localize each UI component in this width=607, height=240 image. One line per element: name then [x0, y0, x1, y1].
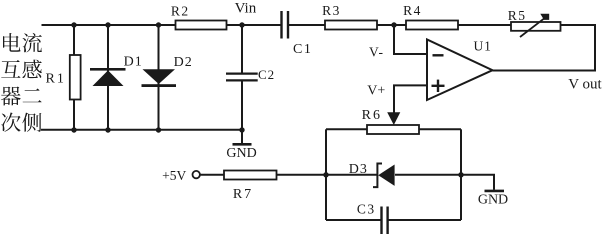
wire loop right vertical — [460, 129, 462, 220]
label chinese char 互 — [1, 60, 20, 78]
wire C2 branch vertical upper — [241, 25, 243, 74]
wire D2 branch vertical — [158, 25, 160, 130]
wire top bus right segment (C1 to feedback corner) — [289, 24, 596, 26]
svg-text:R5: R5 — [508, 8, 527, 23]
wire loop bottom left of C3 — [326, 219, 381, 221]
wire V+ branch to R6 wiper — [394, 85, 427, 116]
resistor R3 — [325, 21, 377, 30]
svg-text:GND: GND — [478, 193, 508, 208]
resistor R6 (potentiometer) — [367, 112, 419, 134]
svg-text:D2: D2 — [174, 55, 193, 70]
wire R6 row (loop top) — [326, 128, 461, 130]
svg-text:C2: C2 — [258, 67, 275, 82]
diode D1 — [90, 68, 126, 86]
svg-text:GND: GND — [226, 146, 256, 161]
wire top bus left segment — [42, 24, 282, 26]
wire R1 branch vertical — [73, 25, 75, 130]
wire loop left vertical — [325, 129, 327, 220]
svg-text:C1: C1 — [293, 42, 312, 57]
svg-text:R6: R6 — [362, 108, 382, 123]
label chinese char 流 — [22, 33, 41, 53]
+5V terminal circle — [193, 171, 200, 178]
label chinese char 侧 — [22, 113, 41, 132]
wire C2 branch vertical lower — [241, 81, 243, 130]
label chinese char 电 — [3, 33, 21, 52]
ground GND bar right — [485, 190, 505, 193]
label chinese char 感 — [22, 60, 41, 79]
resistor R4 — [406, 21, 458, 30]
label chinese char 器 — [1, 87, 21, 106]
wire feedback right vertical and op-amp output — [493, 24, 596, 71]
svg-text:V out: V out — [568, 76, 602, 92]
capacitor C3 — [382, 207, 388, 235]
svg-text:Vin: Vin — [235, 0, 257, 16]
wire D1 branch vertical — [107, 25, 109, 130]
resistor R5 (adjustable) — [511, 14, 561, 37]
svg-text:C3: C3 — [357, 202, 376, 217]
resistor R7 — [224, 171, 277, 180]
resistor R2 — [176, 21, 227, 30]
wire D3 to GND stub — [395, 175, 494, 190]
node junction dots — [71, 22, 463, 177]
resistor R1 — [70, 55, 81, 100]
svg-text:R2: R2 — [171, 4, 190, 19]
svg-text:R3: R3 — [322, 3, 341, 18]
wire V- branch from R3/R4 node — [394, 25, 427, 54]
diode D3 (zener) — [373, 164, 395, 188]
svg-text:V+: V+ — [367, 84, 385, 99]
svg-text:D1: D1 — [124, 54, 143, 69]
label chinese text block 电流互感器二次侧 — [1, 33, 42, 132]
svg-text:+5V: +5V — [162, 168, 186, 183]
capacitor C1 — [282, 11, 289, 39]
label chinese char 次 — [1, 113, 20, 132]
svg-text:U1: U1 — [473, 39, 492, 54]
capacitor C2 — [226, 74, 258, 81]
wire loop bottom right of C3 — [388, 219, 461, 221]
op-amp U1 — [427, 40, 493, 101]
svg-text:R7: R7 — [233, 187, 253, 202]
wire bottom bus — [41, 129, 242, 131]
svg-text:R4: R4 — [403, 3, 422, 18]
svg-text:D3: D3 — [349, 162, 368, 177]
wire +5V terminal to R7 — [200, 174, 224, 176]
svg-text:R1: R1 — [46, 72, 66, 87]
svg-text:V-: V- — [369, 45, 384, 60]
label chinese char 二 — [23, 89, 42, 103]
wire GND stub below bottom bus — [241, 130, 243, 144]
wire R7 to D3 — [277, 174, 377, 176]
diode D2 — [142, 69, 177, 87]
ground GND bar below C2 — [233, 143, 252, 146]
